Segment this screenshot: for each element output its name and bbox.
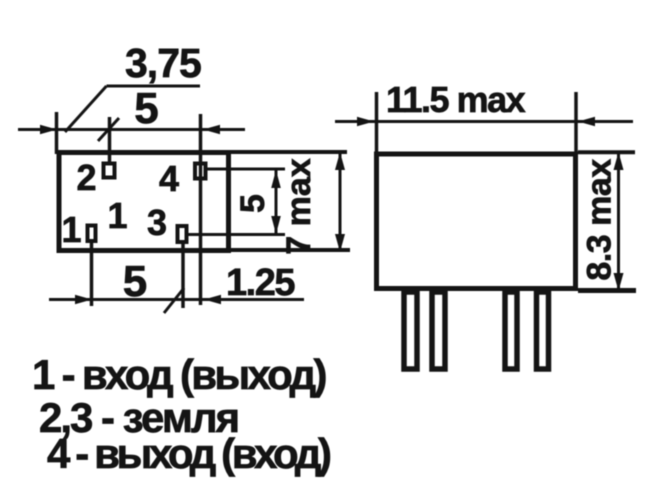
svg-text:3: 3 <box>147 202 167 243</box>
svg-text:11.5 max: 11.5 max <box>386 79 526 120</box>
svg-text:1: 1 <box>61 209 81 250</box>
extension line pin1 <box>90 243 94 306</box>
extension line from pin3 pad <box>189 233 286 236</box>
lead 2 (side view) <box>432 292 445 369</box>
package U1 side view outline <box>377 154 576 289</box>
lead 4 (side view) <box>537 292 549 369</box>
arrowhead at side view left edge <box>357 117 374 127</box>
pin 3 pad <box>178 226 187 242</box>
pin 2 pad <box>104 164 115 178</box>
tick mark at pin2 extension <box>98 118 119 141</box>
svg-text:8.3 max: 8.3 max <box>581 159 619 281</box>
arrowhead at package left edge <box>40 125 57 135</box>
arrowhead down (8.3 max) <box>614 273 624 291</box>
pin 1 pad <box>88 226 96 242</box>
arrowhead up (7 max) <box>335 152 345 170</box>
arrowhead down (dim 5 vertical) <box>271 216 281 234</box>
extension line side view left edge <box>375 92 379 154</box>
extension of package bottom edge <box>228 248 350 252</box>
dimension 8.3 max line <box>617 154 620 290</box>
extension line pin4 (long, to bottom dimension) <box>199 114 203 305</box>
svg-text:3,75: 3,75 <box>125 40 201 86</box>
package U1 top view outline <box>59 153 229 251</box>
svg-text:1: 1 <box>107 195 127 236</box>
arrowhead at side view right edge <box>578 117 595 127</box>
bottom dimension line <box>49 298 304 301</box>
extension of package top edge <box>228 150 347 154</box>
svg-text:4: 4 <box>159 158 179 199</box>
extension line side view right edge <box>574 92 578 154</box>
arrowhead up (dim 5 vertical) <box>271 170 281 188</box>
svg-text:5: 5 <box>234 194 272 213</box>
svg-text:5: 5 <box>134 84 158 133</box>
arrowhead at pin4 extension (bottom) <box>204 295 221 305</box>
svg-text:5: 5 <box>123 257 147 306</box>
svg-text:1 - вход (выход): 1 - вход (выход) <box>32 351 325 398</box>
arrowhead down (7 max) <box>335 234 345 252</box>
svg-text:2: 2 <box>76 157 96 198</box>
arrowhead at pin1 extension <box>75 295 92 305</box>
top dimension line <box>18 128 245 131</box>
pin 4 pad <box>195 164 206 179</box>
dimension 7 max line <box>339 154 342 250</box>
svg-text:7 max: 7 max <box>280 158 318 254</box>
vertical dimension 5 line <box>275 169 278 235</box>
extension line pin3 <box>181 244 185 308</box>
svg-text:1.25: 1.25 <box>226 262 295 304</box>
extension line from pin4 pad <box>208 168 286 171</box>
leader line for 3,75 horizontal <box>107 85 201 88</box>
lead 3 (side view) <box>505 292 517 369</box>
dimension 11.5 max line <box>335 120 633 123</box>
extension of side view bottom edge <box>578 288 636 293</box>
svg-text:4 - выход (вход): 4 - выход (вход) <box>47 430 330 477</box>
lead 1 (side view) <box>404 292 417 369</box>
leader line for 3,75 slanted <box>65 86 107 132</box>
arrowhead up (8.3 max) <box>614 152 624 170</box>
arrowhead at pin4 extension <box>203 125 220 135</box>
tick mark at pin3 extension <box>164 288 184 313</box>
extension line pin2 <box>108 117 112 164</box>
extension of side view top edge <box>578 150 635 154</box>
extension line package left edge <box>55 112 59 154</box>
